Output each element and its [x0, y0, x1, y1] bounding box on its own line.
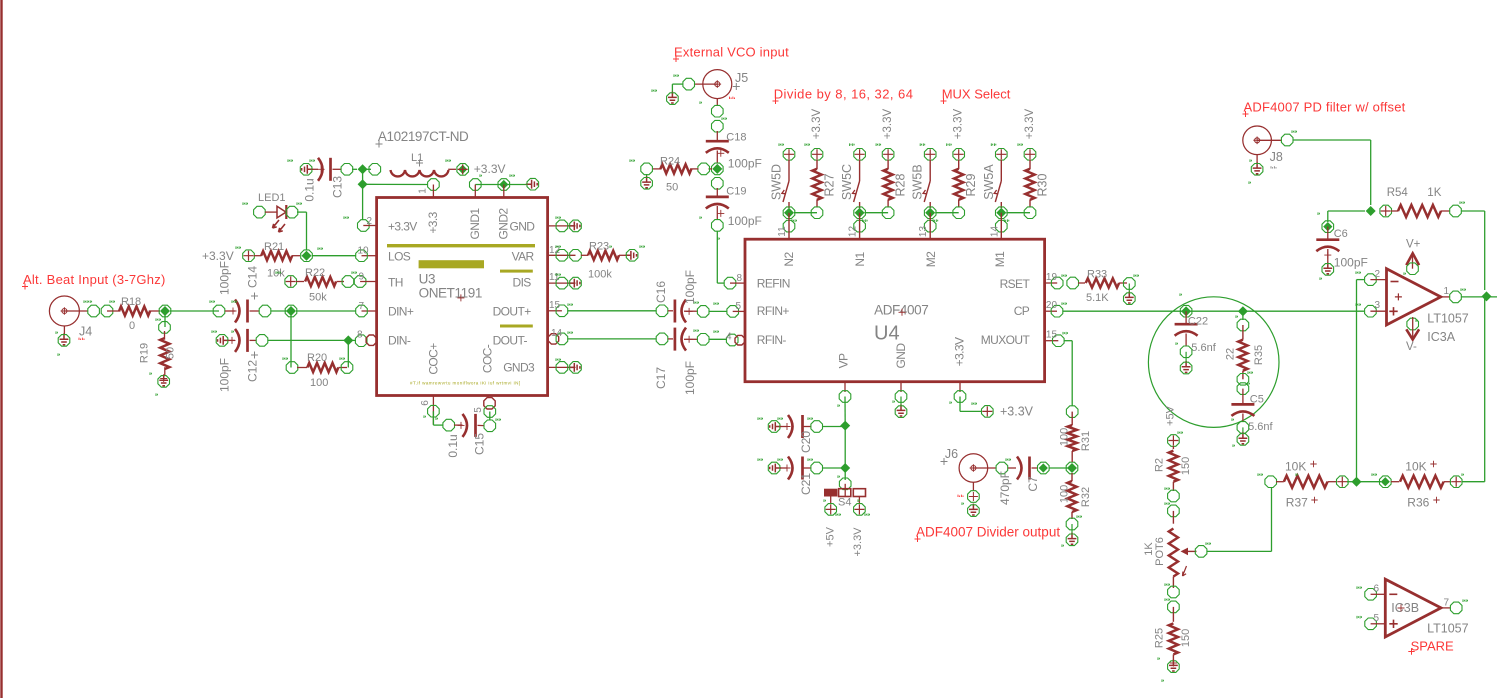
- junction node C13/+3.3V: [358, 164, 368, 174]
- svg-text:+5V: +5V: [1165, 405, 1177, 426]
- U4 GND pin stub: [900, 382, 902, 392]
- resistor R33: [1067, 277, 1079, 289]
- wire junction to U3 DIN- bubble: [348, 339, 356, 341]
- svg-text:R22: R22: [305, 267, 325, 279]
- capacitor C13: [302, 165, 313, 174]
- svg-text:REFIN: REFIN: [757, 277, 790, 291]
- svg-text:C21: C21: [799, 473, 813, 495]
- svg-text:VP: VP: [837, 353, 851, 368]
- svg-text:150: 150: [1180, 457, 1192, 475]
- junction node SW5D: [783, 207, 795, 219]
- connector J6: [959, 454, 988, 483]
- capacitor C17: [656, 333, 668, 345]
- svg-text:15: 15: [549, 300, 561, 311]
- resistor R32: [1071, 473, 1073, 481]
- svg-text:DIN-: DIN-: [388, 334, 411, 348]
- supply pad right of R37: [1337, 476, 1349, 488]
- U4 pin 5 pad: [727, 306, 739, 318]
- svg-text:J5: J5: [735, 71, 748, 85]
- ground below U4 GND: [897, 405, 906, 416]
- resistor R18: [101, 305, 113, 317]
- svg-text:LED1: LED1: [258, 192, 286, 204]
- resistor R20: [286, 362, 298, 374]
- capacitor C18: [716, 131, 718, 141]
- svg-text:+3.3V: +3.3V: [474, 162, 506, 176]
- svg-text:POT6: POT6: [1154, 537, 1166, 566]
- pin pads U3 TH: [342, 276, 354, 288]
- wire C14 to junction: [271, 310, 291, 312]
- pads below POT6: [1168, 586, 1180, 598]
- svg-text:15: 15: [1046, 330, 1058, 341]
- svg-text:U3: U3: [419, 272, 435, 287]
- capacitor C14: [213, 305, 225, 317]
- junction node R21/LED: [301, 250, 313, 262]
- IC3A V+ symbol: [1412, 256, 1414, 269]
- svg-text:1: 1: [1444, 286, 1450, 297]
- junction node C18/R24/C19: [712, 163, 724, 175]
- svg-text:7: 7: [1444, 598, 1450, 609]
- ground below J5 wire: [668, 92, 677, 103]
- junction node SW5B: [924, 207, 936, 219]
- resistor R19: [164, 331, 166, 340]
- svg-text:SW5B: SW5B: [911, 164, 925, 199]
- pin pad J4: [88, 305, 100, 317]
- junction node VP/C20: [840, 421, 850, 431]
- svg-text:20: 20: [1046, 300, 1058, 311]
- svg-text:R19: R19: [139, 343, 151, 363]
- svg-text:5.1K: 5.1K: [1086, 292, 1109, 304]
- svg-text:COC-: COC-: [481, 344, 495, 373]
- U3 GND right stub: [548, 225, 576, 227]
- U3 pin 8 bubble and pad: [355, 335, 367, 347]
- supply +3.3V pad under S4: [854, 504, 866, 516]
- svg-text:100pF: 100pF: [218, 358, 232, 392]
- svg-text:9: 9: [359, 272, 365, 283]
- pads J5 down: [712, 105, 724, 117]
- supply +3.3V pad at L1: [457, 164, 469, 176]
- svg-text:11: 11: [777, 226, 788, 237]
- svg-text:C6: C6: [1334, 228, 1348, 240]
- capacitor C6: [1328, 210, 1365, 212]
- connector J5: [703, 70, 732, 99]
- ground below R24: [646, 174, 648, 178]
- junction node DIN-: [343, 335, 353, 345]
- U3 pin 9 stub: [360, 281, 377, 283]
- svg-text:RSET: RSET: [1000, 277, 1031, 291]
- svg-text:ADF4007 PD filter w/ offset: ADF4007 PD filter w/ offset: [1244, 100, 1406, 115]
- svg-text:V-: V-: [1406, 341, 1417, 353]
- svg-text:7: 7: [359, 301, 365, 312]
- svg-text:TH: TH: [388, 276, 403, 290]
- inductor L1: [391, 170, 449, 176]
- wire VP down: [844, 397, 846, 426]
- svg-text:GND1: GND1: [468, 208, 482, 240]
- pin pad U3 pin 2: [358, 220, 370, 232]
- U3 pin 7 stub and pad: [362, 310, 377, 312]
- wire C7 to R31/R32 junction: [1049, 467, 1072, 469]
- svg-text:+3.3V: +3.3V: [1000, 405, 1034, 419]
- wire R36 to output feedback: [1462, 481, 1485, 483]
- U3 pin 11 DIS: [548, 282, 576, 284]
- svg-text:External VCO input: External VCO input: [674, 45, 789, 60]
- svg-text:GND2: GND2: [497, 208, 511, 240]
- svg-text:+3.3V: +3.3V: [852, 527, 864, 557]
- svg-text:10K: 10K: [1285, 460, 1306, 474]
- U4 top pin 12: [854, 220, 866, 232]
- junction node R35 on CP wire: [1238, 306, 1248, 316]
- svg-text:1: 1: [418, 188, 429, 194]
- svg-text:6: 6: [420, 400, 431, 406]
- junction node SW5A: [996, 207, 1008, 219]
- svg-text:10: 10: [358, 246, 370, 257]
- svg-text:R31: R31: [1080, 431, 1092, 451]
- svg-text:C16: C16: [654, 281, 668, 303]
- svg-text:RFIN-: RFIN-: [757, 333, 787, 347]
- svg-text:+3.3V: +3.3V: [953, 108, 965, 139]
- IC U4 ADF4007 box: [745, 239, 1045, 382]
- wire junction to U3 DIN+: [296, 310, 356, 312]
- wire junction down to R19: [164, 311, 166, 327]
- POT6 wiper arrow: [1187, 550, 1197, 552]
- U4 +3.3V pin stub: [959, 382, 961, 392]
- U4 pin 19 RSET: [1045, 282, 1058, 284]
- capacitor C15: [443, 419, 455, 431]
- wire feedback junction to R37: [1357, 481, 1382, 483]
- svg-text:J6: J6: [945, 447, 958, 461]
- svg-text:100pF: 100pF: [218, 261, 232, 295]
- wire C17 to U4 RFIN-: [709, 338, 727, 340]
- capacitor C19: [712, 178, 724, 190]
- svg-text:100pF: 100pF: [683, 270, 697, 304]
- svg-text:GND: GND: [510, 220, 536, 234]
- capacitor C22: [1185, 311, 1187, 323]
- wire J8 to R54 junction: [1293, 139, 1371, 141]
- U4 top pin 14: [996, 220, 1008, 232]
- svg-text:1K: 1K: [1427, 187, 1441, 199]
- pad left of J5: [683, 78, 695, 90]
- resistor R30: [1024, 149, 1036, 161]
- svg-text:R30: R30: [1036, 173, 1050, 196]
- pad right of J8: [1281, 134, 1293, 146]
- svg-text:GND3: GND3: [503, 361, 535, 375]
- U4 VP pin stub: [844, 382, 846, 392]
- connector J8: [1243, 126, 1272, 155]
- wire J5 to ground: [672, 83, 683, 85]
- svg-text:50k: 50k: [309, 292, 327, 304]
- resistor R28: [882, 149, 894, 161]
- svg-text:R37: R37: [1286, 496, 1308, 510]
- svg-text:50: 50: [165, 347, 177, 359]
- junction node feedback R37/R36: [1352, 477, 1362, 487]
- wire DOUT+ to C16: [568, 310, 656, 312]
- svg-text:0.1u: 0.1u: [446, 434, 460, 457]
- svg-text:IC3A: IC3A: [1427, 330, 1455, 344]
- wire C20 to VP junction: [822, 426, 845, 428]
- svg-text:11: 11: [549, 272, 560, 283]
- wire junction down to S4: [844, 426, 846, 480]
- svg-text:+3.3V: +3.3V: [882, 108, 894, 139]
- ground below C22: [1182, 361, 1191, 372]
- junction node J8/R54/C6: [1366, 206, 1376, 216]
- U4 pin 20 CP: [1045, 310, 1057, 312]
- svg-text:M2: M2: [924, 251, 938, 267]
- U4 pin 15 MUXOUT: [1045, 340, 1059, 342]
- svg-text:14: 14: [989, 226, 1000, 238]
- wire CP to op-amp: [1063, 310, 1364, 312]
- switch SW5A supply pad: [996, 149, 1008, 161]
- resistor R25: [1172, 607, 1174, 622]
- resistor R31: [1066, 406, 1078, 418]
- resistor R24: [709, 168, 713, 170]
- ground below J8: [1253, 162, 1262, 173]
- capacitor C20: [770, 422, 781, 431]
- svg-text:Divide by 8, 16, 32, 64: Divide by 8, 16, 32, 64: [774, 87, 914, 102]
- svg-text:ADF4007: ADF4007: [874, 303, 928, 318]
- svg-text:LT1057: LT1057: [1427, 312, 1469, 326]
- svg-text:C22: C22: [1188, 316, 1208, 328]
- resistor R27: [811, 149, 823, 161]
- wire SW5A to R30: [1006, 212, 1030, 214]
- svg-text:470pF: 470pF: [998, 471, 1012, 505]
- IC3A pin 3 pad: [1365, 305, 1377, 317]
- svg-text:14: 14: [551, 328, 563, 339]
- wire MUXOUT to R31: [1064, 340, 1072, 342]
- svg-text:C7: C7: [1026, 476, 1040, 492]
- U3 pin 12 VAR: [548, 254, 576, 256]
- pin pad U3 pin 1: [428, 179, 440, 191]
- wire SW5D to R27: [794, 212, 817, 214]
- svg-text:DIN+: DIN+: [388, 305, 414, 319]
- svg-text:C17: C17: [654, 367, 668, 389]
- svg-text:SW5A: SW5A: [982, 164, 996, 200]
- resistor R54: [1380, 205, 1392, 217]
- svg-text:C15: C15: [473, 433, 487, 455]
- svg-text:SW5D: SW5D: [770, 164, 784, 200]
- svg-text:M1: M1: [993, 251, 1007, 267]
- svg-text:R28: R28: [894, 173, 908, 196]
- svg-text:S4: S4: [838, 497, 851, 509]
- junction node R18/R19/C14: [159, 305, 171, 317]
- U3 pin 15 DOUT+: [548, 310, 562, 312]
- junction node SW5C: [854, 207, 866, 219]
- IC3B plus sign: [1389, 620, 1397, 628]
- ground below R19: [159, 374, 168, 385]
- svg-text:J8: J8: [1270, 150, 1283, 164]
- wire R21 junction to U3 LOS: [312, 255, 356, 257]
- svg-text:CP: CP: [1014, 304, 1030, 318]
- svg-text:100: 100: [1059, 428, 1071, 446]
- wire junction to U3 pin 1: [363, 183, 428, 185]
- wire DOUT- to C17: [568, 338, 656, 340]
- ground below R25: [1169, 660, 1178, 671]
- resistor R2: [1172, 446, 1174, 449]
- svg-text:IC3B: IC3B: [1391, 601, 1419, 615]
- wire SW5C to R28: [865, 212, 889, 214]
- junction node DIN+: [285, 305, 297, 317]
- junction node C21/S4: [840, 463, 850, 473]
- U3 pin 5 stub and bubble: [487, 396, 489, 399]
- pad and ground right of R33: [1124, 278, 1136, 290]
- wire junction to L1 pad: [367, 168, 371, 170]
- svg-text:R2: R2: [1154, 458, 1166, 472]
- svg-text:+3.3V: +3.3V: [953, 337, 967, 366]
- U4 pin 8 pad REFIN: [724, 277, 736, 289]
- U3 internal bar DOUT: [500, 325, 533, 328]
- svg-text:100pF: 100pF: [1334, 256, 1368, 270]
- svg-text:C19: C19: [726, 186, 746, 198]
- switch SW5A: [1000, 160, 1002, 182]
- svg-text:R27: R27: [823, 173, 837, 196]
- wire POT6 wiper to R37: [1207, 550, 1272, 552]
- ground below R32: [1068, 533, 1077, 544]
- svg-text:J4: J4: [79, 325, 92, 339]
- svg-text:100: 100: [1059, 485, 1071, 503]
- svg-text:8: 8: [737, 273, 743, 284]
- POT6 small arrow: [1183, 566, 1187, 576]
- wire +3.3V pin to supply: [959, 397, 961, 412]
- capacitor C16: [656, 305, 668, 317]
- IC3B output pin 7: [1441, 607, 1451, 609]
- svg-text:5: 5: [1373, 613, 1379, 624]
- IC3B pin 6 pad: [1365, 589, 1377, 601]
- pad below J6: [968, 491, 980, 503]
- top pads GND1 GND2 of U3: [470, 179, 482, 191]
- op-amp IC3B: [1385, 579, 1441, 637]
- junction node C22 on CP wire: [1180, 305, 1192, 317]
- svg-text:100pF: 100pF: [683, 361, 697, 395]
- svg-text:5.6nf: 5.6nf: [1191, 342, 1216, 354]
- U3 internal bar DIS: [500, 270, 533, 273]
- svg-text:0.1u: 0.1u: [303, 178, 317, 201]
- svg-text:5: 5: [473, 407, 484, 413]
- op-amp IC3A: [1387, 269, 1441, 325]
- svg-text:R18: R18: [121, 296, 141, 308]
- svg-text:50: 50: [666, 182, 678, 194]
- IC3A V- symbol: [1407, 318, 1419, 330]
- svg-text:SPARE: SPARE: [1411, 639, 1454, 654]
- svg-text:6: 6: [1373, 584, 1379, 595]
- U4 pin 4 pad and bubble: [726, 334, 738, 346]
- switch SW5D supply pad: [783, 149, 795, 161]
- wire C13 to junction: [352, 168, 357, 170]
- resistor R23: [581, 254, 588, 256]
- svg-text:100k: 100k: [588, 269, 612, 281]
- wire junction down to pin1 node: [362, 169, 364, 184]
- IC3A pin 2 pad: [1365, 274, 1377, 286]
- capacitor C21: [770, 464, 781, 473]
- switch SW5D: [788, 160, 790, 182]
- svg-text:C5: C5: [1250, 394, 1264, 406]
- capacitor C7: [996, 462, 1008, 474]
- wire R18 junction to C14: [170, 310, 219, 312]
- svg-text:R25: R25: [1154, 628, 1166, 648]
- wire C16 to U4 RFIN+: [709, 310, 727, 312]
- U3 pin 2 stub: [363, 225, 376, 227]
- svg-text:3: 3: [1374, 300, 1380, 311]
- svg-text:2: 2: [1374, 269, 1380, 280]
- U3 pin 10 stub and pad: [362, 255, 377, 257]
- svg-text:+3.3V: +3.3V: [388, 220, 417, 234]
- wire junction down to R20: [290, 311, 292, 368]
- svg-text:ADF4007 Divider output: ADF4007 Divider output: [916, 525, 1060, 540]
- IC3B pin 5 pad: [1365, 618, 1377, 630]
- svg-text:DOUT-: DOUT-: [493, 334, 528, 348]
- svg-text:R33: R33: [1087, 269, 1107, 281]
- switch SW5C: [859, 160, 861, 182]
- svg-text:R54: R54: [1387, 187, 1409, 199]
- IC3A output pin 1: [1441, 296, 1450, 298]
- svg-text:GND: GND: [894, 343, 908, 369]
- svg-text:C18: C18: [726, 132, 746, 144]
- loop filter circle: [1148, 297, 1279, 428]
- svg-text:22: 22: [1225, 348, 1237, 360]
- svg-text:100: 100: [310, 377, 328, 389]
- wire pin6 to C15: [432, 411, 434, 425]
- IC3A minus sign: [1391, 281, 1399, 283]
- resistor R21: [254, 255, 262, 257]
- svg-text:SW5C: SW5C: [840, 164, 854, 200]
- svg-text:5: 5: [736, 301, 742, 312]
- svg-text:R24: R24: [660, 156, 680, 168]
- svg-text:+3.3V: +3.3V: [1024, 108, 1036, 139]
- svg-text:R20: R20: [307, 352, 327, 364]
- supply pad right of R36: [1450, 476, 1462, 488]
- svg-text:C14: C14: [246, 266, 260, 288]
- junction node output/feedback: [1482, 291, 1492, 301]
- svg-text:RFIN+: RFIN+: [757, 304, 790, 318]
- svg-text:C20: C20: [799, 431, 813, 453]
- svg-text:COC+: COC+: [427, 343, 441, 375]
- capacitor C5: [1242, 389, 1244, 403]
- frame border left edge: [0, 0, 2, 698]
- svg-text:10K: 10K: [1405, 460, 1426, 474]
- ground below C5: [1239, 432, 1248, 443]
- svg-text:R23: R23: [589, 241, 609, 253]
- svg-text:R35: R35: [1253, 345, 1265, 365]
- IC U3 ONET1191 box: [377, 198, 548, 396]
- resistor R35: [1242, 311, 1244, 320]
- svg-text:+5V: +5V: [825, 526, 837, 547]
- svg-text:DOUT+: DOUT+: [493, 305, 532, 319]
- svg-text:5.6nf: 5.6nf: [1248, 421, 1273, 433]
- connector J4: [49, 296, 79, 326]
- svg-text:150: 150: [1180, 629, 1192, 647]
- svg-text:LT1057: LT1057: [1427, 622, 1469, 636]
- ground right of R23: [625, 251, 636, 260]
- U3 GND3 stub: [548, 366, 576, 368]
- wire R54 to feedback column: [1462, 210, 1485, 212]
- switch SW5B: [929, 160, 931, 182]
- svg-text:V+: V+: [1406, 239, 1421, 251]
- svg-text:C12: C12: [246, 360, 260, 382]
- wire output to right: [1462, 296, 1498, 298]
- svg-text:N1: N1: [853, 252, 867, 267]
- wire junction down to U3 pin 2: [362, 184, 364, 220]
- svg-text:8: 8: [357, 330, 363, 341]
- ground below J4: [60, 333, 69, 344]
- capacitor C12: [218, 336, 229, 345]
- wire LED1 to R21 junction: [297, 211, 307, 213]
- resistor R29: [953, 149, 965, 161]
- wire junction down to R20 right: [347, 340, 349, 367]
- svg-text:+3.3V: +3.3V: [811, 108, 823, 139]
- IC3B minus sign: [1389, 593, 1397, 595]
- resistor R37: [1265, 476, 1277, 488]
- jumper S4 block: [824, 489, 837, 497]
- U3 pin 14 DOUT- bubble: [548, 334, 558, 344]
- svg-text:R32: R32: [1080, 487, 1092, 507]
- svg-text:100pF: 100pF: [728, 157, 762, 171]
